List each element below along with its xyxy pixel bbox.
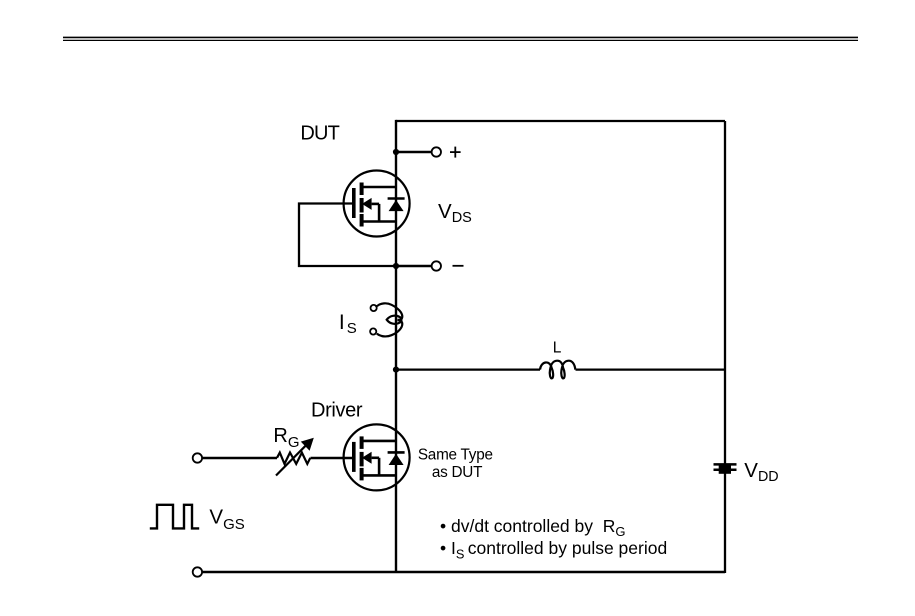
transistor Driver: [344, 424, 410, 490]
wire: top horizontal: [396, 120, 725, 122]
svg-text:IS: IS: [339, 311, 357, 337]
terminal circle minus: [432, 261, 441, 270]
current probe IS: [370, 303, 402, 336]
wire: main center vertical: [395, 120, 397, 573]
wire: gate input to resistor: [202, 457, 277, 459]
wire: inductor wire left segment: [396, 368, 540, 370]
svg-text:DUT: DUT: [300, 123, 339, 145]
terminal circle plus: [432, 147, 441, 156]
svg-text:• IS controlled by pulse perio: • IS controlled by pulse period: [440, 538, 667, 562]
node junction dot at inductor wire: [393, 367, 399, 373]
label minus (drawn): [453, 265, 464, 267]
wire: minus tap: [396, 265, 432, 267]
terminal circle driver gate input: [193, 453, 202, 462]
svg-text:RG: RG: [273, 425, 299, 451]
resistor RG arrow: [276, 446, 306, 476]
label plus (drawn): [450, 147, 461, 158]
wire: bottom horizontal: [202, 571, 725, 573]
svg-text:VDD: VDD: [744, 459, 778, 485]
top header double rule: [63, 37, 858, 40]
source VDD symbol: [714, 464, 737, 473]
resistor RG zigzag: [277, 453, 310, 464]
inductor L coil: [540, 361, 575, 379]
pulse waveform VGS: [150, 505, 199, 529]
terminal circle bottom left: [193, 567, 202, 576]
svg-text:VGS: VGS: [209, 505, 244, 533]
wire: DUT gate loop: [299, 204, 396, 267]
svg-text:VDS: VDS: [438, 200, 472, 226]
node junction dot at plus tap: [393, 149, 399, 155]
wire: right rail vertical: [724, 121, 726, 573]
svg-text:as DUT: as DUT: [432, 464, 482, 481]
wire: resistor to driver gate: [311, 457, 354, 459]
svg-text:• dv/dt controlled by RG: • dv/dt controlled by RG: [440, 516, 626, 539]
wire: plus tap: [396, 151, 432, 153]
node junction dot at minus tap: [393, 263, 399, 269]
svg-text:L: L: [553, 339, 562, 356]
wire: inductor wire right segment: [576, 368, 726, 370]
svg-text:Driver: Driver: [311, 399, 363, 421]
svg-text:Same Type: Same Type: [418, 447, 493, 464]
transistor DUT: [344, 171, 410, 237]
